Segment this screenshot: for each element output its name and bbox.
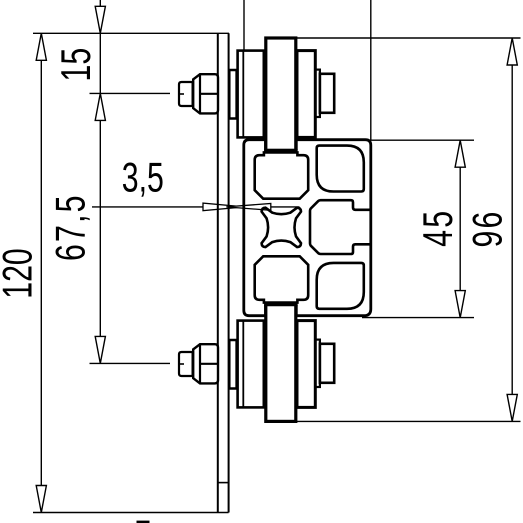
wire: extension line top (plate top edge, y=33) [33, 32, 229, 34]
dimension 45 line [459, 140, 461, 317]
dimension 120 line [40, 33, 42, 512]
dimension 3,5 leader line left [92, 206, 203, 208]
top roller: axle step 1 [315, 70, 320, 117]
svg-text:15: 15 [53, 48, 100, 82]
svg-text:45: 45 [414, 209, 461, 247]
dimension 96 top arrowhead [507, 38, 517, 65]
bottom roller: axle step 1 [315, 340, 320, 387]
bottom roller: axle step 2 [320, 344, 334, 383]
bottom bolt: hex nut [193, 344, 218, 383]
partial glyph at bottom edge [137, 521, 150, 523]
profile cavity bottom-left (screw channel) [255, 256, 309, 302]
wire: top dimension extension line left x=244 [243, 0, 245, 50]
profile outline (45mm extrusion) [244, 140, 371, 316]
arrowhead pointing down at y=33 (15 outside) [95, 6, 105, 33]
profile cavity bottom-right (corner bore) [317, 263, 364, 309]
dimension 3,5 arrow pointing right (tip at profile edge) [203, 203, 245, 211]
top bolt: hex nut [193, 74, 218, 113]
plate (mounting plate side view) [217, 33, 219, 512]
dimension 96 bottom arrowhead [507, 394, 517, 421]
profile cavity top-right (corner bore) [317, 146, 364, 192]
dimension 96 extension line bottom y=421.4 [297, 420, 521, 422]
top roller: axle step 2 [320, 74, 334, 113]
bottom roller: washer [229, 340, 236, 389]
arrowhead pointing up at y=93 [95, 93, 105, 120]
top bolt: thread stub [179, 82, 193, 106]
top roller: left wheel section [238, 51, 264, 138]
dimension 3,5 arrow pointing left (tip at plate edge) [226, 204, 270, 211]
top roller: right wheel section [297, 51, 315, 138]
svg-text:3,5: 3,5 [122, 154, 164, 201]
dimension 45 extension line top y=140 [368, 139, 474, 141]
wire: extension line at bottom bolt axis y=363 [90, 362, 171, 364]
bottom roller: right wheel section [297, 321, 315, 408]
top roller: left section inner line [242, 51, 244, 138]
dimension 45 bottom arrowhead [455, 291, 465, 318]
profile bottom slot top [264, 303, 297, 306]
dimension 3,5 right tail [271, 206, 300, 208]
profile bottom slot walls [264, 305, 267, 316]
top roller: centre rib [266, 38, 296, 150]
wire: extension line at top bolt axis y=93 [90, 92, 171, 94]
profile C-slot middle right [310, 200, 371, 254]
dimension 15 / 67,5 shared line [99, 0, 101, 363]
bottom bolt: thread stub [179, 352, 193, 376]
wire: top dimension extension line right x=370.8 [370, 0, 372, 140]
bottom roller: left section inner line [242, 321, 244, 408]
dimension 96 line [511, 38, 513, 421]
profile top slot bottom [264, 149, 297, 152]
profile top slot walls [264, 140, 267, 151]
bottom roller: left wheel section [238, 321, 264, 408]
profile cavity top-left (screw channel) [255, 152, 309, 198]
plate joint line y=482.5 [218, 482, 229, 484]
dimension 120 top arrowhead [36, 33, 46, 60]
arrowhead pointing down at y=363 (67,5 bottom) [95, 336, 105, 363]
dimension 96 extension line top y=37.6 [297, 37, 521, 39]
bottom roller: centre rib [266, 303, 296, 421]
dimension 45 extension line bottom y=317.6 [362, 317, 474, 319]
svg-text:67,5: 67,5 [47, 193, 94, 261]
wire: extension line bottom (plate bottom edge, y=512.5) [33, 512, 229, 514]
top roller: washer [229, 70, 236, 119]
dimension 45 top arrowhead [455, 140, 465, 167]
svg-text:96: 96 [464, 209, 511, 247]
svg-text:120: 120 [0, 248, 41, 299]
dimension 120 bottom arrowhead [36, 486, 46, 513]
profile central X core hole [262, 208, 301, 247]
